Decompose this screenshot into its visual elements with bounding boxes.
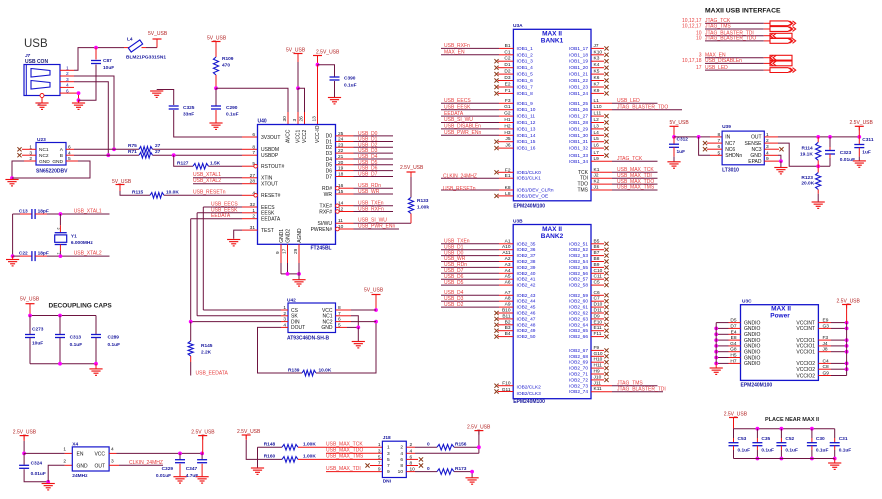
svg-text:6: 6 [400, 457, 403, 463]
svg-text:R173: R173 [455, 466, 467, 472]
svg-text:6: 6 [66, 88, 69, 94]
svg-text:C53: C53 [738, 436, 747, 442]
svg-text:27: 27 [250, 173, 256, 179]
svg-text:IOB2_65: IOB2_65 [569, 328, 588, 334]
svg-text:IOB1_9: IOB1_9 [517, 101, 534, 107]
svg-text:IOB1_20: IOB1_20 [569, 65, 588, 71]
svg-text:IOB2_72: IOB2_72 [569, 377, 588, 383]
svg-text:10uF: 10uF [32, 340, 43, 346]
svg-text:EEDATA: EEDATA [444, 111, 464, 117]
svg-text:VCC-IO: VCC-IO [315, 125, 321, 143]
svg-text:1: 1 [378, 442, 381, 448]
svg-text:USB_RXFn: USB_RXFn [358, 207, 384, 213]
svg-text:USB_RESETn: USB_RESETn [193, 190, 226, 196]
svg-text:IOB2_69: IOB2_69 [569, 360, 588, 366]
svg-text:BLM21PG331SN1: BLM21PG331SN1 [126, 55, 166, 61]
svg-text:3: 3 [378, 448, 381, 454]
svg-text:2.5V_USB: 2.5V_USB [13, 430, 37, 436]
svg-text:10.0K: 10.0K [319, 368, 332, 374]
svg-text:D7: D7 [326, 174, 333, 180]
svg-text:5V_USB: 5V_USB [207, 36, 227, 42]
svg-text:RSTOUT#: RSTOUT# [261, 164, 284, 170]
svg-text:IOB2_41: IOB2_41 [517, 277, 536, 283]
svg-text:C290: C290 [226, 105, 238, 111]
svg-text:USB_EESK: USB_EESK [444, 104, 471, 110]
svg-text:JTAG_BLASTER_TDI: JTAG_BLASTER_TDI [617, 386, 666, 392]
svg-text:USB_DISABLEn: USB_DISABLEn [444, 124, 481, 130]
svg-text:DNI: DNI [383, 478, 392, 484]
svg-text:C390: C390 [344, 76, 356, 82]
svg-text:IOB1/CLK1: IOB1/CLK1 [517, 176, 542, 182]
svg-text:10,17,18: 10,17,18 [682, 58, 702, 64]
svg-text:JTAG_TCK: JTAG_TCK [617, 156, 643, 162]
svg-text:USB_MAX_TDI: USB_MAX_TDI [326, 466, 361, 472]
svg-text:C31: C31 [839, 436, 848, 442]
svg-text:IOB2_63: IOB2_63 [569, 316, 588, 322]
svg-text:C22: C22 [19, 251, 28, 257]
svg-text:0.1uF: 0.1uF [816, 448, 829, 454]
svg-text:OUT: OUT [751, 135, 762, 141]
svg-text:17: 17 [696, 65, 702, 71]
svg-text:R148: R148 [264, 442, 276, 448]
svg-text:IOB2_70: IOB2_70 [569, 366, 588, 372]
svg-text:GND2: GND2 [285, 229, 291, 243]
svg-text:USB_MAX_TDO: USB_MAX_TDO [326, 448, 363, 454]
svg-text:8: 8 [400, 463, 403, 469]
svg-text:USBDP: USBDP [261, 153, 279, 159]
svg-text:EEDATA: EEDATA [261, 217, 281, 223]
svg-text:27: 27 [155, 143, 161, 149]
svg-text:EN: EN [77, 451, 84, 457]
svg-text:EPM240M100: EPM240M100 [513, 204, 545, 210]
svg-text:0.01uF: 0.01uF [840, 157, 855, 163]
svg-text:1: 1 [63, 447, 66, 453]
svg-text:GND: GND [77, 463, 89, 469]
svg-text:IOB2_48: IOB2_48 [517, 322, 536, 328]
svg-text:7: 7 [387, 463, 390, 469]
svg-text:IOB1_13: IOB1_13 [517, 126, 536, 132]
svg-text:IOB1_14: IOB1_14 [517, 133, 536, 139]
svg-text:IOB1_33: IOB1_33 [569, 153, 588, 159]
svg-text:IOB1_28: IOB1_28 [569, 120, 588, 126]
svg-text:IOB1_16: IOB1_16 [517, 146, 536, 152]
svg-text:IOB1_6: IOB1_6 [517, 78, 534, 84]
svg-text:Power: Power [770, 313, 790, 320]
svg-text:10uF: 10uF [103, 65, 114, 71]
svg-text:18pF: 18pF [38, 251, 49, 257]
svg-text:USB_EEDATA: USB_EEDATA [196, 371, 229, 377]
svg-text:MAX II: MAX II [542, 31, 562, 38]
svg-text:NC3: NC3 [751, 147, 761, 153]
svg-text:IOB1_29: IOB1_29 [569, 126, 588, 132]
svg-text:IOB1_3: IOB1_3 [517, 59, 534, 65]
svg-text:1.00k: 1.00k [417, 205, 429, 211]
svg-text:C273: C273 [32, 327, 44, 333]
svg-text:IOB2_46: IOB2_46 [517, 311, 536, 317]
svg-text:5: 5 [378, 454, 381, 460]
svg-text:1.00K: 1.00K [303, 442, 316, 448]
svg-text:USB_MAX_TMS: USB_MAX_TMS [617, 185, 655, 191]
svg-text:IOB1/CLK0: IOB1/CLK0 [517, 170, 542, 176]
svg-text:4: 4 [400, 451, 403, 457]
svg-text:0.1uF: 0.1uF [344, 83, 357, 89]
svg-text:IOB1/DEV_OE: IOB1/DEV_OE [517, 193, 549, 199]
svg-text:B: B [60, 153, 63, 159]
svg-text:SN65220DBV: SN65220DBV [36, 169, 68, 175]
svg-text:USB_XTAL2: USB_XTAL2 [193, 178, 221, 184]
svg-text:2.5V_USB: 2.5V_USB [191, 430, 215, 436]
svg-text:5V_USB: 5V_USB [364, 288, 384, 294]
svg-text:C289: C289 [108, 335, 120, 341]
svg-text:C30: C30 [816, 436, 825, 442]
svg-text:SENSE: SENSE [745, 141, 763, 147]
svg-text:GND1: GND1 [279, 229, 285, 243]
svg-text:IOB1_8: IOB1_8 [517, 91, 534, 97]
svg-text:PWREN#: PWREN# [311, 227, 333, 233]
svg-text:IOB1_4: IOB1_4 [517, 65, 534, 71]
svg-text:19.1K: 19.1K [800, 152, 813, 158]
svg-text:J18: J18 [383, 435, 391, 441]
svg-text:IOB2_58: IOB2_58 [569, 283, 588, 289]
svg-text:2: 2 [63, 459, 66, 465]
svg-text:VCCIO1: VCCIO1 [796, 350, 815, 356]
svg-text:0.1uF: 0.1uF [839, 448, 852, 454]
svg-text:2: 2 [252, 214, 255, 220]
svg-text:5V_USB: 5V_USB [20, 297, 40, 303]
svg-text:OUT: OUT [94, 463, 105, 469]
svg-text:IOB2_55: IOB2_55 [569, 265, 588, 271]
svg-text:GNDIO: GNDIO [744, 361, 761, 367]
svg-text:SHDNn: SHDNn [725, 153, 742, 159]
svg-text:R114: R114 [802, 145, 814, 151]
svg-text:IOB2_66: IOB2_66 [569, 334, 588, 340]
svg-text:IOB2_51: IOB2_51 [569, 241, 588, 247]
svg-text:AVCC: AVCC [286, 129, 292, 143]
svg-text:C87: C87 [103, 58, 112, 64]
svg-text:NC1: NC1 [39, 147, 49, 153]
svg-text:2.5V_USB: 2.5V_USB [724, 412, 748, 418]
svg-text:NC7: NC7 [725, 141, 735, 147]
svg-text:USB_RESETn: USB_RESETn [443, 186, 476, 192]
svg-text:MAX II: MAX II [771, 306, 791, 313]
svg-text:CLKIN_24MHZ: CLKIN_24MHZ [129, 460, 163, 466]
svg-text:2.5V_USB: 2.5V_USB [237, 429, 261, 435]
svg-text:R71: R71 [128, 149, 137, 155]
svg-text:29: 29 [293, 248, 299, 254]
svg-text:IOB1_15: IOB1_15 [517, 139, 536, 145]
svg-text:10: 10 [398, 469, 404, 475]
svg-text:USB_PWR_ENn: USB_PWR_ENn [444, 130, 481, 136]
svg-text:IOB1_18: IOB1_18 [569, 52, 588, 58]
svg-text:10: 10 [696, 36, 702, 42]
svg-text:0: 0 [427, 442, 430, 448]
svg-text:IOB2_53: IOB2_53 [569, 253, 588, 259]
svg-text:AT93C46DN-SH-B: AT93C46DN-SH-B [287, 336, 330, 342]
svg-text:PLACE NEAR MAX II: PLACE NEAR MAX II [765, 417, 820, 423]
svg-text:C324: C324 [31, 461, 43, 467]
svg-text:IOB1_7: IOB1_7 [517, 85, 534, 91]
svg-text:2.5V_USB: 2.5V_USB [837, 299, 861, 305]
svg-text:R115: R115 [132, 190, 144, 196]
svg-text:MAX_EN: MAX_EN [444, 50, 465, 56]
svg-text:1uF: 1uF [677, 149, 686, 155]
svg-text:10,12,17: 10,12,17 [682, 24, 702, 30]
svg-text:IOB2/CLK2: IOB2/CLK2 [517, 385, 542, 391]
svg-text:1: 1 [387, 445, 390, 451]
svg-text:IOB2_40: IOB2_40 [517, 271, 536, 277]
svg-text:IOB2_50: IOB2_50 [517, 334, 536, 340]
svg-text:U3C: U3C [742, 299, 752, 305]
svg-text:IOB2/CLK3: IOB2/CLK3 [517, 391, 542, 397]
svg-text:1.5K: 1.5K [210, 160, 221, 166]
svg-text:5: 5 [387, 457, 390, 463]
svg-text:IOB2_74: IOB2_74 [569, 389, 588, 395]
svg-text:USB_D2: USB_D2 [444, 302, 464, 308]
svg-text:2: 2 [400, 445, 403, 451]
svg-text:6: 6 [252, 132, 255, 138]
svg-text:9: 9 [387, 469, 390, 475]
svg-text:0.01uF: 0.01uF [156, 473, 171, 479]
svg-text:C13: C13 [19, 208, 28, 214]
svg-text:RESET#: RESET# [261, 193, 281, 199]
svg-text:IOB2_54: IOB2_54 [569, 259, 588, 265]
svg-text:IOB1_25: IOB1_25 [569, 101, 588, 107]
svg-text:NC2: NC2 [39, 153, 49, 159]
svg-text:RXF#: RXF# [319, 209, 332, 215]
svg-text:USB_MAX_TCK: USB_MAX_TCK [326, 442, 363, 448]
svg-text:IOB2_49: IOB2_49 [517, 328, 536, 334]
svg-text:0.1uF: 0.1uF [70, 342, 83, 348]
svg-text:USB_WR: USB_WR [358, 189, 380, 195]
svg-text:AGND: AGND [297, 228, 303, 243]
svg-text:USB_XTAL1: USB_XTAL1 [74, 209, 102, 215]
svg-text:IOB1_19: IOB1_19 [569, 59, 588, 65]
svg-text:R123: R123 [801, 175, 813, 181]
svg-text:EPAD: EPAD [748, 159, 762, 165]
svg-text:VCCINT: VCCINT [796, 326, 815, 332]
svg-text:U40: U40 [258, 119, 267, 125]
svg-text:5V_USB: 5V_USB [148, 31, 168, 37]
svg-text:2.5V_USB: 2.5V_USB [316, 50, 340, 56]
svg-text:3V3OUT: 3V3OUT [261, 135, 280, 141]
svg-text:C311: C311 [862, 137, 874, 143]
svg-text:IOB1_10: IOB1_10 [517, 107, 536, 113]
svg-text:J7: J7 [25, 53, 31, 58]
svg-text:C313: C313 [70, 335, 82, 341]
svg-text:IOB1_34: IOB1_34 [569, 159, 588, 165]
svg-text:IOB1_11: IOB1_11 [517, 114, 536, 120]
svg-text:10.0K: 10.0K [166, 190, 179, 196]
svg-text:1.00K: 1.00K [303, 454, 316, 460]
svg-text:EPM240M100: EPM240M100 [513, 399, 545, 405]
svg-text:EPM240M100: EPM240M100 [741, 383, 773, 389]
svg-text:8: 8 [718, 132, 721, 138]
svg-text:IOB2_38: IOB2_38 [517, 259, 536, 265]
svg-text:DECOUPLING CAPS: DECOUPLING CAPS [49, 303, 113, 310]
svg-text:5V_USB: 5V_USB [286, 48, 306, 54]
svg-text:C325: C325 [183, 105, 195, 111]
svg-text:9: 9 [275, 251, 281, 254]
svg-text:USB_D5: USB_D5 [444, 280, 464, 286]
svg-text:IOB2_52: IOB2_52 [569, 247, 588, 253]
svg-text:IOB2_56: IOB2_56 [569, 271, 588, 277]
svg-text:VCCIO2: VCCIO2 [796, 367, 815, 373]
svg-text:18pF: 18pF [38, 208, 49, 214]
svg-text:C312: C312 [677, 137, 689, 143]
svg-text:TEST: TEST [261, 228, 274, 234]
svg-text:TMS: TMS [577, 188, 588, 194]
svg-text:FT245BL: FT245BL [311, 245, 332, 251]
svg-text:3: 3 [111, 459, 114, 465]
svg-text:R109: R109 [222, 56, 234, 62]
svg-text:USB_PWR_ENn: USB_PWR_ENn [358, 224, 395, 230]
svg-text:L4: L4 [127, 37, 133, 43]
svg-text:IOB2_47: IOB2_47 [517, 316, 536, 322]
svg-text:0: 0 [427, 466, 430, 472]
svg-text:NC6: NC6 [725, 147, 735, 153]
svg-text:1: 1 [66, 66, 69, 72]
svg-text:IOB1_21: IOB1_21 [569, 72, 588, 78]
svg-text:R133: R133 [417, 198, 429, 204]
svg-text:0.1uF: 0.1uF [108, 342, 121, 348]
svg-text:C35: C35 [761, 436, 770, 442]
svg-text:USB_D7: USB_D7 [358, 172, 378, 178]
svg-text:GND: GND [52, 159, 63, 165]
svg-text:17: 17 [282, 248, 288, 254]
svg-text:XTOUT: XTOUT [261, 182, 278, 188]
svg-text:IOB2_35: IOB2_35 [517, 241, 536, 247]
svg-text:IOB1_22: IOB1_22 [569, 78, 588, 84]
svg-text:0.01uF: 0.01uF [31, 471, 46, 477]
svg-text:JTAG_BLASTER_TDO: JTAG_BLASTER_TDO [617, 104, 668, 110]
svg-text:470: 470 [222, 63, 230, 69]
svg-text:IOB2_59: IOB2_59 [569, 293, 588, 299]
svg-text:CLKIN_24MHZ: CLKIN_24MHZ [443, 174, 477, 180]
svg-text:33nF: 33nF [183, 112, 194, 118]
svg-text:5V_USB: 5V_USB [670, 120, 690, 126]
svg-text:IOB2_57: IOB2_57 [569, 277, 588, 283]
svg-text:IOB2_37: IOB2_37 [517, 253, 536, 259]
svg-text:2.5V_USB: 2.5V_USB [467, 425, 491, 431]
svg-text:4: 4 [66, 83, 69, 89]
svg-text:IOB1_32: IOB1_32 [569, 146, 588, 152]
svg-text:IOB2_39: IOB2_39 [517, 265, 536, 271]
svg-text:6.000MHz: 6.000MHz [71, 240, 93, 246]
svg-text:2.5V_USB: 2.5V_USB [400, 165, 424, 171]
svg-text:IN: IN [725, 135, 730, 141]
svg-text:MAX II: MAX II [542, 226, 562, 233]
svg-text:0.1uF: 0.1uF [761, 448, 774, 454]
svg-text:Y1: Y1 [71, 233, 77, 239]
svg-text:IOB2_62: IOB2_62 [569, 311, 588, 317]
svg-text:13: 13 [312, 116, 318, 122]
svg-text:X4: X4 [72, 442, 78, 448]
svg-text:1uF: 1uF [862, 150, 871, 156]
svg-text:1: 1 [252, 208, 255, 214]
svg-text:MAXII USB INTERFACE: MAXII USB INTERFACE [705, 8, 781, 15]
svg-text:7: 7 [378, 461, 381, 467]
svg-text:2: 2 [56, 228, 60, 230]
svg-text:IOB2_61: IOB2_61 [569, 305, 588, 311]
svg-text:IOB2_68: IOB2_68 [569, 354, 588, 360]
svg-text:IOB1_23: IOB1_23 [569, 85, 588, 91]
svg-text:GND: GND [39, 159, 50, 165]
svg-text:IOB2_42: IOB2_42 [517, 283, 536, 289]
svg-text:28: 28 [250, 179, 256, 185]
svg-text:C323: C323 [840, 150, 852, 156]
svg-text:IOB2_71: IOB2_71 [569, 372, 588, 378]
svg-text:IOB2_60: IOB2_60 [569, 299, 588, 305]
svg-text:8: 8 [252, 144, 255, 150]
svg-text:IOB2_67: IOB2_67 [569, 348, 588, 354]
svg-text:IOB1_26: IOB1_26 [569, 107, 588, 113]
svg-text:IOB2_73: IOB2_73 [569, 383, 588, 389]
svg-text:IOB1_17: IOB1_17 [569, 46, 588, 52]
svg-text:C52: C52 [785, 436, 794, 442]
svg-text:IOB2_43: IOB2_43 [517, 293, 536, 299]
svg-text:VCC2: VCC2 [302, 129, 308, 143]
svg-text:1: 1 [56, 253, 60, 255]
svg-text:BANK2: BANK2 [541, 233, 564, 240]
svg-text:VCC1: VCC1 [296, 129, 302, 143]
svg-text:R127: R127 [177, 160, 189, 166]
svg-text:IOB1_1: IOB1_1 [517, 46, 534, 52]
svg-text:3: 3 [292, 119, 298, 122]
svg-text:3: 3 [66, 77, 69, 83]
svg-text:0.1uF: 0.1uF [226, 112, 239, 118]
svg-text:VCCIO2: VCCIO2 [796, 373, 815, 379]
svg-text:9: 9 [378, 467, 381, 473]
svg-text:30: 30 [282, 116, 288, 122]
svg-text:IOB1_12: IOB1_12 [517, 120, 536, 126]
svg-text:0.1uF: 0.1uF [785, 448, 798, 454]
svg-text:IOB2_64: IOB2_64 [569, 322, 588, 328]
svg-text:USB_RXFn: USB_RXFn [444, 43, 470, 49]
svg-text:IOB1_24: IOB1_24 [569, 91, 588, 97]
svg-text:27: 27 [155, 149, 161, 155]
svg-text:IOB1/DEV_CLRn: IOB1/DEV_CLRn [517, 188, 554, 194]
svg-text:USB: USB [24, 38, 48, 50]
svg-text:USB_LED: USB_LED [617, 98, 640, 104]
svg-text:USB_SI_WU: USB_SI_WU [444, 117, 473, 123]
svg-text:4.7uF: 4.7uF [186, 473, 199, 479]
svg-text:U3A: U3A [513, 23, 523, 29]
svg-text:7: 7 [252, 150, 255, 156]
svg-text:USB_XTAL2: USB_XTAL2 [74, 251, 102, 257]
svg-text:2.5V_USB: 2.5V_USB [850, 120, 874, 126]
svg-text:C347: C347 [186, 466, 198, 472]
svg-text:IOB1_5: IOB1_5 [517, 72, 534, 78]
svg-text:IOB2_36: IOB2_36 [517, 247, 536, 253]
svg-text:R156: R156 [455, 442, 467, 448]
svg-text:WR: WR [324, 192, 333, 198]
svg-text:IOB2_45: IOB2_45 [517, 305, 536, 311]
svg-text:IOB1_31: IOB1_31 [569, 139, 588, 145]
svg-text:IOB2_44: IOB2_44 [517, 299, 536, 305]
svg-text:LT3010: LT3010 [722, 168, 739, 174]
svg-text:U3B: U3B [513, 219, 523, 225]
svg-text:VCC: VCC [94, 451, 105, 457]
svg-text:3: 3 [387, 451, 390, 457]
svg-text:U39: U39 [722, 124, 731, 130]
svg-text:26: 26 [299, 116, 305, 122]
svg-text:24MHz: 24MHz [72, 473, 88, 479]
svg-text:IOB1_2: IOB1_2 [517, 52, 534, 58]
svg-text:BANK1: BANK1 [541, 38, 564, 45]
svg-text:DOUT: DOUT [291, 325, 305, 331]
svg-text:R139: R139 [288, 368, 300, 374]
svg-text:USB_EECS: USB_EECS [444, 98, 471, 104]
